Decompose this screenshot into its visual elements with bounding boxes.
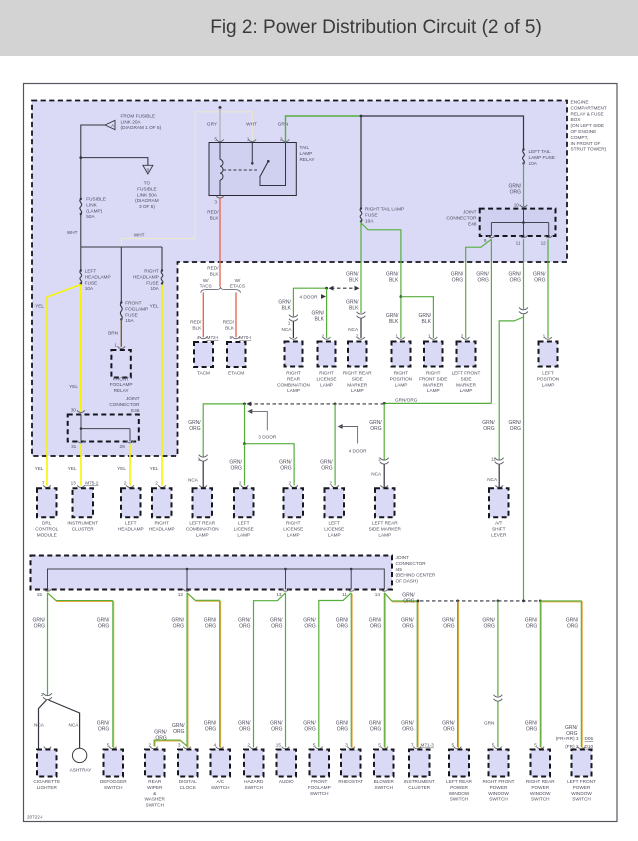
- svg-text:GRN/ORG: GRN/ORG: [395, 398, 418, 403]
- svg-text:LAMP FUSE: LAMP FUSE: [529, 155, 555, 160]
- svg-text:BLK: BLK: [422, 319, 432, 325]
- svg-text:WHT: WHT: [134, 232, 145, 237]
- svg-text:FUSE: FUSE: [146, 280, 159, 285]
- svg-text:OF ENGINE: OF ENGINE: [571, 129, 597, 134]
- right rear power window switch box: [537, 747, 545, 749]
- svg-text:4 DOOR: 4 DOOR: [300, 294, 319, 299]
- svg-text:W/: W/: [203, 278, 209, 283]
- svg-text:POWER: POWER: [450, 785, 468, 790]
- YEL wire to joint connector E46 pin 30: [80, 285, 82, 412]
- connector arrow B to fusible link 50A: [143, 165, 153, 174]
- GRN/ORG wire to left rear side marker lamp: [383, 403, 385, 459]
- svg-text:ORG: ORG: [510, 426, 522, 432]
- svg-text:RED/: RED/: [207, 210, 219, 215]
- svg-text:ASHTRAY: ASHTRAY: [70, 768, 93, 773]
- svg-text:(ON LEFT SIDE: (ON LEFT SIDE: [571, 123, 605, 128]
- svg-text:SHIFT: SHIFT: [492, 526, 506, 531]
- svg-text:WASHER: WASHER: [145, 797, 166, 802]
- svg-text:YEL: YEL: [69, 384, 78, 389]
- GRN/ORG wire E48 pin 12 to left position lamp: [547, 239, 549, 338]
- svg-text:LAMP: LAMP: [542, 382, 555, 387]
- svg-text:RED/: RED/: [207, 266, 219, 271]
- svg-text:WINDOW: WINDOW: [449, 791, 470, 796]
- left headlamp box: [126, 485, 134, 487]
- svg-text:2: 2: [329, 480, 332, 485]
- svg-text:WINDOW: WINDOW: [571, 791, 592, 796]
- svg-text:4 DOOR: 4 DOOR: [349, 449, 368, 454]
- svg-text:I45: I45: [396, 567, 403, 572]
- svg-text:DEFOGGER: DEFOGGER: [100, 779, 127, 784]
- svg-text:STRUT TOWER): STRUT TOWER): [571, 147, 607, 152]
- svg-text:FRONT: FRONT: [311, 779, 327, 784]
- relay pin 3: [216, 196, 224, 198]
- svg-text:ORG: ORG: [155, 735, 167, 741]
- svg-text:ORG: ORG: [510, 189, 522, 195]
- svg-text:M71-3: M71-3: [421, 743, 435, 748]
- svg-text:RIGHT TAIL LAMP: RIGHT TAIL LAMP: [365, 207, 404, 212]
- svg-text:ORG: ORG: [98, 623, 110, 629]
- svg-text:ORG: ORG: [337, 623, 349, 629]
- right tail lamp fuse 10A: [360, 209, 362, 222]
- svg-text:TACM: TACM: [197, 371, 210, 376]
- NCA wire to ashtray: [49, 700, 80, 748]
- right position lamp box: [397, 337, 405, 339]
- svg-text:SWITCH: SWITCH: [146, 803, 165, 808]
- left front side marker lamp box: [462, 337, 470, 339]
- svg-text:ORG: ORG: [337, 726, 349, 732]
- svg-text:ORG: ORG: [173, 623, 185, 629]
- svg-text:BLOWER: BLOWER: [374, 779, 395, 784]
- svg-text:2: 2: [288, 480, 291, 485]
- svg-text:LEFT TAIL: LEFT TAIL: [529, 149, 552, 154]
- GRN/ORG branch pin12 to AC switch: [188, 594, 221, 602]
- svg-text:SWITCH: SWITCH: [572, 797, 591, 802]
- svg-text:20722-I: 20722-I: [27, 815, 43, 820]
- svg-text:LICENSE: LICENSE: [234, 526, 254, 531]
- svg-text:ORG: ORG: [478, 277, 490, 283]
- joint connector E48: [480, 209, 556, 236]
- svg-text:LAMP: LAMP: [196, 532, 209, 537]
- svg-text:INSTRUMENT: INSTRUMENT: [67, 521, 98, 526]
- svg-text:JOINT: JOINT: [463, 210, 477, 215]
- svg-text:LINK: LINK: [86, 202, 97, 207]
- svg-text:ETACM: ETACM: [228, 371, 244, 376]
- svg-text:Fig 2: Power Distribution Circ: Fig 2: Power Distribution Circuit (2 of …: [210, 17, 542, 38]
- svg-text:YEL: YEL: [35, 466, 44, 471]
- 4 DOOR variant dashed link row1: [329, 286, 334, 291]
- svg-text:TAIL: TAIL: [300, 145, 310, 150]
- svg-text:FUSE: FUSE: [125, 312, 138, 317]
- svg-text:15: 15: [37, 592, 43, 597]
- svg-text:4: 4: [197, 335, 200, 340]
- svg-text:BLK: BLK: [225, 325, 235, 330]
- svg-text:FUSE: FUSE: [365, 213, 378, 218]
- YEL wire to DRL control module: [47, 285, 81, 486]
- GRN/ORG wire I45 pin11 to rheostat: [351, 594, 353, 749]
- svg-text:MARKER: MARKER: [423, 382, 444, 387]
- GRN wire to right front power window switch: [497, 601, 499, 696]
- svg-text:SWITCH: SWITCH: [450, 797, 469, 802]
- svg-text:FUSIBLE: FUSIBLE: [86, 197, 106, 202]
- svg-text:ORG: ORG: [510, 277, 522, 283]
- GRN/ORG wire to right rear power window switch: [540, 602, 542, 748]
- svg-text:LINK 50A: LINK 50A: [137, 192, 158, 197]
- svg-text:LEFT REAR: LEFT REAR: [446, 779, 472, 784]
- svg-text:LICENSE: LICENSE: [316, 376, 336, 381]
- 4 DOOR callout: [338, 424, 343, 429]
- svg-text:POWER: POWER: [531, 785, 549, 790]
- svg-text:INSTRUMENT: INSTRUMENT: [404, 779, 435, 784]
- svg-text:ORG: ORG: [271, 623, 283, 629]
- svg-text:11: 11: [516, 240, 521, 245]
- GRN/ORG wire to left license lamp: [243, 403, 246, 406]
- svg-text:NCA: NCA: [188, 477, 199, 482]
- svg-text:10A: 10A: [85, 286, 94, 291]
- GRN/ORG branch pin14 to instrument cluster: [385, 594, 418, 602]
- svg-text:HEADLAMP: HEADLAMP: [85, 274, 111, 279]
- svg-text:POWER: POWER: [490, 785, 508, 790]
- relay switch: [260, 162, 269, 178]
- svg-text:NCA: NCA: [281, 327, 292, 332]
- svg-text:RHEOSTAT: RHEOSTAT: [338, 779, 363, 784]
- relay control contact from pin 1: [251, 143, 253, 163]
- node instrument cluster feed: [417, 600, 420, 603]
- left rear combination lamp box: [199, 485, 207, 487]
- svg-text:NCA: NCA: [487, 477, 498, 482]
- svg-text:OF DASH): OF DASH): [396, 579, 419, 584]
- left headlamp fuse 10A: [80, 271, 82, 284]
- svg-text:FRONT SIDE: FRONT SIDE: [419, 376, 447, 381]
- svg-text:ORG: ORG: [443, 726, 455, 732]
- svg-text:ORG: ORG: [567, 623, 579, 629]
- svg-text:COMBINATION: COMBINATION: [186, 526, 219, 531]
- svg-text:HAZARD: HAZARD: [244, 779, 264, 784]
- junction node: [79, 156, 82, 159]
- svg-text:RELAY & FUSE: RELAY & FUSE: [571, 111, 604, 116]
- svg-text:ORG: ORG: [205, 623, 217, 629]
- svg-text:ORG: ORG: [239, 623, 251, 629]
- right license lamp box row2: [290, 485, 298, 487]
- variant dashed link on lamp bus: [246, 402, 251, 407]
- wire to left tail lamp fuse: [361, 116, 524, 150]
- AC switch box: [216, 747, 224, 749]
- svg-text:WINDOW: WINDOW: [530, 791, 551, 796]
- svg-text:14: 14: [375, 592, 381, 597]
- right front side marker lamp box: [430, 337, 438, 339]
- svg-text:LEFT FRONT: LEFT FRONT: [452, 371, 481, 376]
- svg-text:11: 11: [342, 592, 347, 597]
- svg-text:ETACS: ETACS: [230, 284, 245, 289]
- svg-text:BRN: BRN: [108, 331, 118, 336]
- svg-text:RIGHT: RIGHT: [394, 371, 409, 376]
- svg-text:MODULE: MODULE: [37, 532, 57, 537]
- svg-text:9: 9: [229, 335, 232, 340]
- svg-text:ORG: ORG: [239, 726, 251, 732]
- svg-text:CONNECTOR: CONNECTOR: [396, 561, 427, 566]
- GRN/ORG wire I45 pin13 to audio: [285, 593, 287, 748]
- svg-text:ORG: ORG: [526, 726, 538, 732]
- svg-text:29: 29: [119, 444, 125, 449]
- svg-text:LAMP: LAMP: [351, 388, 364, 393]
- svg-text:SWITCH: SWITCH: [245, 785, 264, 790]
- svg-text:BLK: BLK: [210, 271, 220, 276]
- BRN wire to foglamp relay: [120, 320, 122, 347]
- svg-text:RIGHT: RIGHT: [426, 371, 441, 376]
- svg-text:WHT: WHT: [246, 122, 257, 127]
- GRY wire stub with node: [219, 106, 222, 109]
- svg-text:COMBINATION: COMBINATION: [277, 382, 310, 387]
- NCA wire left rear combination lamp: [202, 462, 204, 489]
- svg-text:ORG: ORG: [534, 277, 546, 283]
- junction node tail fuse tap: [360, 115, 363, 118]
- right rear side marker lamp box: [357, 337, 365, 339]
- svg-text:ORG: ORG: [402, 623, 414, 629]
- NCA wire left rear side marker lamp: [383, 465, 385, 489]
- digital clock box: [183, 747, 191, 749]
- svg-text:LEFT: LEFT: [125, 521, 137, 526]
- svg-text:A/C: A/C: [216, 779, 224, 784]
- svg-text:TO: TO: [144, 181, 151, 186]
- svg-text:ORG: ORG: [483, 426, 495, 432]
- svg-text:POSITION: POSITION: [390, 376, 412, 381]
- svg-text:LAMP: LAMP: [287, 532, 300, 537]
- svg-text:ENGINE: ENGINE: [571, 100, 589, 105]
- svg-text:12: 12: [178, 592, 184, 597]
- svg-text:ORG: ORG: [231, 465, 243, 471]
- svg-text:RIGHT: RIGHT: [154, 521, 169, 526]
- svg-text:A/T: A/T: [495, 521, 502, 526]
- audio box: [282, 747, 290, 749]
- svg-text:15A: 15A: [125, 318, 134, 323]
- svg-text:FOGLAMP: FOGLAMP: [110, 382, 133, 387]
- GRN/ORG wire I45 pin14 to blower switch: [384, 594, 386, 749]
- svg-text:31: 31: [71, 444, 77, 449]
- left rear side marker lamp box: [380, 485, 388, 487]
- svg-text:(LAMP): (LAMP): [86, 208, 102, 213]
- svg-text:SWITCH: SWITCH: [489, 797, 508, 802]
- svg-text:SIDE: SIDE: [352, 376, 363, 381]
- svg-text:BLK: BLK: [315, 316, 325, 322]
- svg-text:FOGLAMP: FOGLAMP: [308, 785, 331, 790]
- svg-text:BLK: BLK: [349, 305, 359, 311]
- svg-text:HEADLAMP: HEADLAMP: [118, 526, 144, 531]
- svg-text:LAMP: LAMP: [287, 388, 300, 393]
- svg-text:WINDOW: WINDOW: [488, 791, 509, 796]
- GRN/ORG wire I45 pin12 to digital clock: [187, 594, 189, 749]
- svg-text:CLOCK: CLOCK: [180, 785, 197, 790]
- GRN/ORG wire to right license lamp row2: [245, 444, 295, 486]
- RED/BLK wire from relay pin 3: [219, 197, 221, 287]
- relay coil: [219, 143, 221, 160]
- svg-text:FRONT: FRONT: [113, 376, 129, 381]
- svg-text:YEL: YEL: [68, 466, 77, 471]
- svg-text:10: 10: [514, 203, 520, 208]
- svg-text:BLK: BLK: [389, 277, 399, 283]
- right headlamp box: [158, 485, 166, 487]
- svg-text:2: 2: [239, 480, 242, 485]
- NCA wire right rear combination lamp: [289, 315, 298, 317]
- TACM: [194, 342, 213, 367]
- joint connector I45: [31, 556, 393, 590]
- svg-text:BOX: BOX: [571, 117, 582, 122]
- svg-text:LIGHTER: LIGHTER: [37, 785, 58, 790]
- relay actuation dashed link: [223, 169, 257, 171]
- svg-text:SIDE: SIDE: [461, 376, 472, 381]
- svg-text:A: A: [111, 123, 114, 128]
- wire to right tail lamp fuse: [360, 116, 362, 209]
- left rear power window switch box: [454, 747, 462, 749]
- svg-text:LEFT: LEFT: [238, 521, 250, 526]
- svg-text:LAMP: LAMP: [237, 532, 250, 537]
- svg-text:3: 3: [178, 743, 181, 748]
- svg-text:IN FRONT OF: IN FRONT OF: [571, 141, 601, 146]
- svg-text:SWITCH: SWITCH: [211, 785, 230, 790]
- svg-text:9: 9: [484, 238, 487, 243]
- svg-text:YEL: YEL: [150, 466, 159, 471]
- svg-text:ORG: ORG: [526, 623, 538, 629]
- svg-text:POWER: POWER: [573, 785, 591, 790]
- GRN/BLK wire to right rear side marker lamp: [360, 222, 362, 314]
- svg-text:(FR+RR) 3: (FR+RR) 3: [556, 736, 579, 741]
- split brace to TACS and ETACS: [201, 287, 241, 293]
- svg-text:E48: E48: [468, 221, 477, 226]
- svg-text:REAR: REAR: [148, 779, 162, 784]
- svg-text:ORG: ORG: [402, 726, 414, 732]
- svg-text:ORG: ORG: [280, 465, 292, 471]
- front foglamp fuse 15A: [120, 303, 122, 320]
- svg-text:NCA: NCA: [371, 471, 382, 476]
- svg-text:ORG: ORG: [205, 726, 217, 732]
- svg-text:TACS: TACS: [200, 284, 212, 289]
- svg-text:1: 1: [288, 320, 291, 325]
- GRN/ORG wire to left front power window switch: [541, 602, 582, 748]
- svg-text:JOINT: JOINT: [396, 555, 410, 560]
- wire WHT below fusible link: [80, 214, 82, 247]
- svg-text:LICENSE: LICENSE: [283, 526, 303, 531]
- svg-text:ORG: ORG: [370, 726, 382, 732]
- GRN/ORG wire E48 pin 11 down to dash area: [523, 239, 525, 309]
- svg-text:LICENSE: LICENSE: [324, 526, 344, 531]
- wire down to fusible link lamp: [80, 158, 82, 199]
- ETACM: [227, 342, 246, 367]
- GRN/ORG wire to left rear power window switch: [458, 602, 460, 748]
- instrument cluster box bottom: [413, 747, 421, 749]
- svg-text:10A: 10A: [529, 161, 538, 166]
- svg-text:CIGARETTE: CIGARETTE: [33, 779, 60, 784]
- svg-text:HEADLAMP: HEADLAMP: [133, 274, 159, 279]
- svg-text:(DIAGRAM 1 OF 5): (DIAGRAM 1 OF 5): [121, 125, 162, 130]
- node left rear side marker feed: [383, 402, 386, 405]
- GRN/ORG wire I45 pin15 to cigarette lighter: [47, 593, 49, 696]
- right headlamp fuse 10A: [161, 271, 163, 284]
- GRN/ORG branch to AT shift lever: [499, 317, 523, 460]
- svg-text:YEL: YEL: [35, 304, 44, 309]
- svg-text:RED/: RED/: [223, 320, 235, 325]
- svg-text:13: 13: [276, 592, 282, 597]
- svg-text:SWITCH: SWITCH: [104, 785, 123, 790]
- WHT wire to tail lamp relay pin 1: [121, 112, 252, 247]
- svg-text:SIDE MARKER: SIDE MARKER: [369, 526, 402, 531]
- RED/BLK wire to TACM: [202, 293, 204, 338]
- svg-text:FUSIBLE: FUSIBLE: [137, 186, 157, 191]
- svg-text:NCA: NCA: [348, 327, 359, 332]
- svg-text:LEFT: LEFT: [85, 269, 97, 274]
- right license lamp box: [323, 337, 331, 339]
- svg-text:3 OF 5): 3 OF 5): [139, 204, 155, 209]
- svg-text:RIGHT: RIGHT: [319, 371, 334, 376]
- 3 DOOR callout: [247, 409, 252, 414]
- svg-text:DRL: DRL: [42, 521, 52, 526]
- svg-text:COMPARTMENT: COMPARTMENT: [571, 105, 607, 110]
- left tail lamp fuse 10A: [523, 150, 525, 164]
- svg-text:LAMP: LAMP: [300, 151, 313, 156]
- GRN/ORG lamp bus from pin 9: [384, 402, 491, 404]
- svg-text:M75-2: M75-2: [85, 480, 99, 485]
- AT shift lever box: [495, 485, 503, 487]
- title bar: [0, 0, 638, 56]
- svg-text:FOGLAMP: FOGLAMP: [125, 306, 148, 311]
- svg-text:M72-I: M72-I: [207, 335, 219, 340]
- svg-text:LAMP: LAMP: [460, 388, 473, 393]
- svg-text:JOINT: JOINT: [126, 396, 140, 401]
- svg-text:10A: 10A: [365, 219, 374, 224]
- svg-text:D05: D05: [585, 736, 594, 741]
- GRN/ORG branch pin11 to front foglamp switch: [319, 593, 351, 748]
- svg-text:RIGHT FRONT: RIGHT FRONT: [483, 779, 515, 784]
- svg-text:15: 15: [276, 743, 282, 748]
- svg-text:50A: 50A: [86, 214, 95, 219]
- left front power window switch box: [578, 747, 586, 749]
- left position lamp box: [544, 337, 552, 339]
- svg-text:ORG: ORG: [370, 426, 382, 432]
- svg-text:FROM FUSIBLE: FROM FUSIBLE: [121, 114, 156, 119]
- svg-text:NCA: NCA: [34, 723, 45, 728]
- left license lamp box: [241, 485, 249, 487]
- DRL control module box: [43, 485, 51, 487]
- svg-text:ORG: ORG: [304, 623, 316, 629]
- YEL wire to right headlamp: [161, 285, 163, 486]
- svg-text:YEL: YEL: [150, 304, 159, 309]
- svg-text:ORG: ORG: [321, 465, 333, 471]
- svg-text:ORG: ORG: [98, 726, 110, 732]
- GRN/ORG branch pin15 to defogger switch: [48, 594, 113, 602]
- engine compartment relay and fuse box region: [32, 101, 567, 457]
- svg-text:CONNECTOR: CONNECTOR: [446, 215, 477, 220]
- svg-text:LAMP: LAMP: [378, 532, 391, 537]
- svg-text:YEL: YEL: [117, 466, 126, 471]
- svg-text:13: 13: [71, 480, 77, 485]
- svg-text:LEVER: LEVER: [491, 532, 507, 537]
- GRN/BLK wire right license lamp: [293, 288, 326, 317]
- svg-text:GRN: GRN: [278, 122, 288, 127]
- svg-text:FRONT: FRONT: [125, 301, 141, 306]
- svg-text:7: 7: [42, 480, 45, 485]
- svg-text:COMPT,: COMPT,: [571, 135, 589, 140]
- svg-text:(DIAGRAM: (DIAGRAM: [135, 198, 159, 203]
- defogger switch box: [109, 747, 117, 749]
- svg-text:ORG: ORG: [189, 426, 201, 432]
- svg-text:AUDIO: AUDIO: [279, 779, 294, 784]
- svg-text:ORG: ORG: [403, 598, 415, 604]
- svg-text:LAMP: LAMP: [320, 382, 333, 387]
- svg-text:RIGHT: RIGHT: [286, 371, 301, 376]
- tail lamp relay U1: [209, 143, 296, 196]
- right rear combination lamp box: [290, 337, 298, 339]
- svg-text:RIGHT REAR: RIGHT REAR: [526, 779, 555, 784]
- GRN wire from relay pin 2: [286, 116, 362, 143]
- svg-text:WHT: WHT: [67, 230, 78, 235]
- svg-text:LEFT REAR: LEFT REAR: [189, 521, 215, 526]
